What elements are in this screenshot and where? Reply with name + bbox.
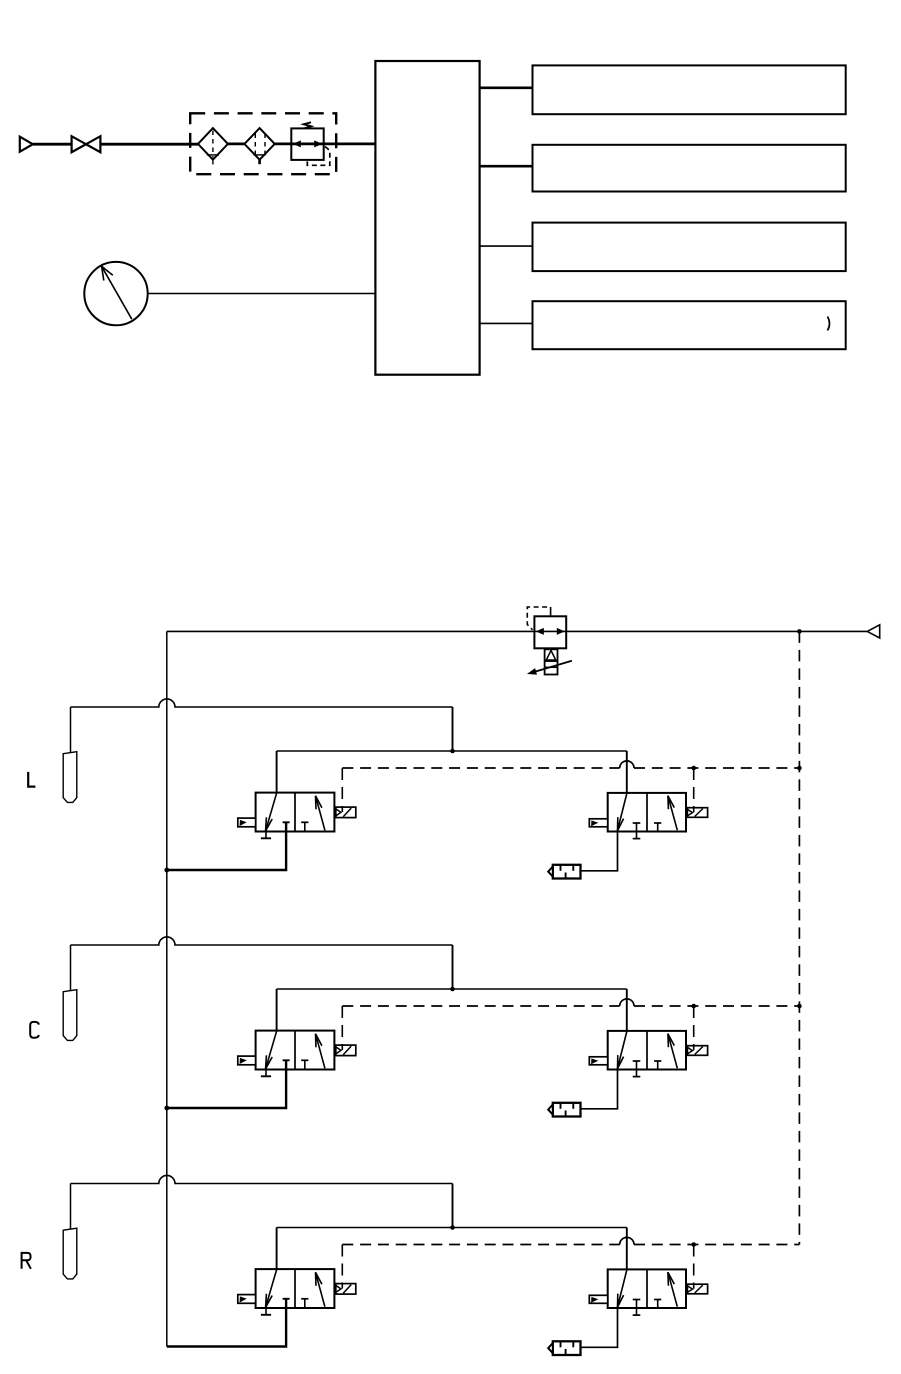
row R: right valve exhaust wire to silencer xyxy=(581,1308,618,1347)
row C: junction node pilot line / right solenoid xyxy=(691,1004,696,1009)
row L: left valve pneumatic pilot (left end) xyxy=(238,818,256,827)
row R: left valve blocked port (right chamber) xyxy=(301,1299,308,1308)
shutoff valve V0 (bowtie) xyxy=(72,136,101,152)
row C: left valve solenoid xyxy=(334,1045,355,1056)
pressure gauge G1 xyxy=(84,262,147,325)
node label R xyxy=(22,1253,31,1269)
row L: dashed pilot drop to right valve solenoid xyxy=(693,768,695,812)
row L: right valve flow path arrow (left chamber) xyxy=(618,794,627,831)
REG2 relief vent xyxy=(545,649,558,674)
REG1 adjustment spring xyxy=(304,122,311,128)
row C: feeder wire from branch to valve supply line xyxy=(452,945,454,989)
row L: feeder wire from branch to valve supply line xyxy=(452,707,454,751)
row L: left valve blocked port (right chamber) xyxy=(301,822,308,831)
row C: left valve flow path arrow (left chamber) xyxy=(266,1031,277,1069)
row R: left valve solenoid xyxy=(334,1284,355,1295)
row R: feeder wire from branch to valve supply line xyxy=(452,1184,454,1228)
row R: dashed pilot drop to left valve solenoid xyxy=(341,1245,343,1289)
row R: wire down to nozzle xyxy=(70,1184,72,1229)
row L: right valve blocked port (right chamber) xyxy=(654,823,661,832)
output box 4 xyxy=(533,301,846,349)
row C: left valve flow arrow (right chamber) xyxy=(316,1034,325,1069)
pressure regulator REG2 on main line xyxy=(534,616,566,648)
row L: wire down to nozzle xyxy=(70,707,72,752)
wire from source to shutoff valve xyxy=(33,143,72,146)
row R: left valve pneumatic pilot (left end) xyxy=(238,1295,256,1304)
row R: dashed pilot line xyxy=(342,1237,799,1244)
row L: left valve flow arrow (right chamber) xyxy=(316,796,325,831)
row C: branch line with hop over trunk xyxy=(71,937,453,945)
REG1 pilot dashed loop xyxy=(307,147,330,166)
row L: branch line with hop over trunk xyxy=(71,699,453,707)
pressure regulator REG1 xyxy=(291,128,323,160)
row C: left valve blocked port (right chamber) xyxy=(301,1060,308,1069)
output box 2 xyxy=(533,145,846,192)
row C: valve supply line xyxy=(277,988,627,990)
REG2 adjustment arrow xyxy=(527,661,572,675)
air supply source triangle xyxy=(20,137,33,152)
row C: junction node output / trunk xyxy=(164,1106,169,1111)
mark inside box 4 xyxy=(828,317,830,331)
row L: junction node on valve supply line xyxy=(450,749,455,754)
row L: right valve pneumatic pilot (left end) xyxy=(589,819,607,827)
row C: right valve pneumatic pilot (left end) xyxy=(589,1057,607,1065)
row R: right valve blocked port (right chamber) xyxy=(654,1300,661,1309)
row R: drop to right valve port 1 xyxy=(626,1228,628,1270)
output box 1 xyxy=(533,65,846,114)
row R: right valve solenoid xyxy=(686,1284,708,1294)
supply trunk vertical (left) xyxy=(166,631,168,1346)
junction node main line / dashed pilot trunk xyxy=(797,629,802,634)
row C: left valve output port mark xyxy=(283,1059,290,1061)
row R: left valve output wire to trunk xyxy=(167,1299,286,1347)
row L: dashed pilot drop to left valve solenoid xyxy=(341,768,343,812)
row L: right 3/2 valve body xyxy=(608,793,686,832)
row L: left valve flow path arrow (left chamber) xyxy=(266,793,277,831)
row L: left valve output wire to trunk xyxy=(167,822,286,870)
row C: nozzle/probe cylinder xyxy=(63,990,77,1041)
node label L xyxy=(28,772,35,787)
filter F1 (diamond with manual drain) xyxy=(198,128,228,164)
row C: left 3/2 valve body xyxy=(256,1031,335,1070)
row L: left valve blocked port below xyxy=(261,832,271,839)
row R: left valve blocked port below xyxy=(261,1308,271,1315)
main supply line of lower circuit xyxy=(167,630,867,632)
row C: right valve flow path arrow (left chamber) xyxy=(618,1032,627,1069)
wire gauge to manifold xyxy=(148,293,376,295)
filter F2 (coalescing filter with drain) xyxy=(244,128,274,164)
row R: right valve pneumatic pilot (left end) xyxy=(589,1295,607,1303)
row C: right valve flow arrow (right chamber) xyxy=(668,1034,677,1069)
row R: right valve flow path arrow (left chamber) xyxy=(618,1270,627,1307)
row R: nozzle/probe cylinder xyxy=(63,1228,77,1279)
node label C xyxy=(30,1022,39,1038)
row R: right 3/2 valve body xyxy=(608,1269,686,1308)
row C: left valve output wire to trunk xyxy=(167,1060,286,1108)
row L: left 3/2 valve body xyxy=(256,793,335,832)
row L: nozzle/probe cylinder xyxy=(63,752,77,803)
row L: right valve solenoid xyxy=(686,808,708,818)
row C: right valve solenoid xyxy=(686,1046,708,1056)
wire F2 to manifold through regulator xyxy=(275,142,376,145)
row C: left valve pneumatic pilot (left end) xyxy=(238,1056,256,1065)
wire shutoff valve to filter F1 xyxy=(100,143,198,146)
row L: right valve blocked port stub xyxy=(633,823,641,839)
row C: drop to left valve port 1 xyxy=(276,989,278,1031)
row C: left valve blocked port below xyxy=(261,1070,271,1077)
row R: junction node pilot line / right solenoid xyxy=(691,1242,696,1247)
row C: right 3/2 valve body xyxy=(608,1031,686,1070)
row C: drop to right valve port 1 xyxy=(626,989,628,1031)
manifold output stub 2 xyxy=(480,165,533,168)
FRL unit dashed enclosure xyxy=(190,113,336,174)
row R: right valve blocked port stub xyxy=(633,1300,641,1316)
row L: left valve solenoid xyxy=(334,807,355,818)
row C: exhaust silencer xyxy=(548,1103,580,1117)
row C: dashed pilot drop to left valve solenoid xyxy=(341,1006,343,1050)
row L: valve supply line xyxy=(277,750,627,752)
row C: right valve blocked port (right chamber) xyxy=(654,1061,661,1070)
row L: drop to left valve port 1 xyxy=(276,751,278,793)
row L: right valve exhaust wire to silencer xyxy=(581,832,618,871)
row R: left valve flow path arrow (left chamber) xyxy=(266,1270,277,1308)
dashed pilot trunk (right side) xyxy=(798,631,800,1244)
row L: dashed pilot line xyxy=(342,761,799,768)
row C: right valve blocked port stub xyxy=(633,1061,641,1077)
row R: left 3/2 valve body xyxy=(256,1269,335,1308)
row C: dashed pilot line xyxy=(342,999,799,1006)
REG2 pilot dashed loop xyxy=(527,607,550,630)
row L: exhaust silencer xyxy=(548,865,580,879)
row R: branch line with hop over trunk xyxy=(71,1175,453,1183)
row C: wire down to nozzle xyxy=(70,945,72,990)
row L: junction node pilot line / right solenoid xyxy=(691,766,696,771)
row C: right valve exhaust wire to silencer xyxy=(581,1070,618,1109)
row L: right valve flow arrow (right chamber) xyxy=(668,796,677,831)
row C: dashed pilot drop to right valve solenoid xyxy=(693,1006,695,1050)
manifold output stub 4 xyxy=(480,322,533,324)
REG2 top stub xyxy=(550,612,552,617)
row R: left valve flow arrow (right chamber) xyxy=(316,1272,325,1307)
manifold output stub 1 xyxy=(480,87,533,90)
row C: junction node pilot line / pilot trunk xyxy=(797,1004,802,1009)
row L: left valve output port mark xyxy=(283,821,290,823)
row R: right valve flow arrow (right chamber) xyxy=(668,1272,677,1307)
manifold block xyxy=(375,61,479,375)
row R: drop to left valve port 1 xyxy=(276,1228,278,1270)
row R: dashed pilot drop to right valve solenoid xyxy=(693,1245,695,1289)
row L: junction node output / trunk xyxy=(164,868,169,873)
row C: junction node on valve supply line xyxy=(450,987,455,992)
row R: junction node on valve supply line xyxy=(450,1225,455,1230)
output box 3 xyxy=(533,223,846,272)
exhaust triangle at right end xyxy=(867,625,880,638)
row R: exhaust silencer xyxy=(548,1341,580,1355)
wire F1 to F2 xyxy=(228,142,245,145)
manifold output stub 3 xyxy=(480,245,533,247)
row R: valve supply line xyxy=(277,1227,627,1229)
row L: junction node pilot line / pilot trunk xyxy=(797,766,802,771)
row L: drop to right valve port 1 xyxy=(626,751,628,793)
row R: left valve output port mark xyxy=(283,1298,290,1300)
